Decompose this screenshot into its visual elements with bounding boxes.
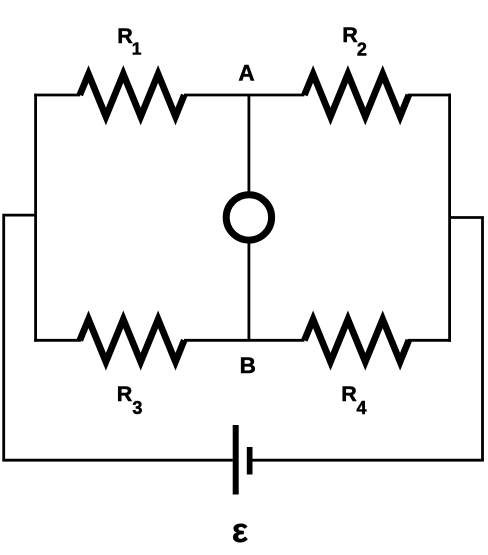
svg-text:1: 1 [132, 39, 142, 59]
svg-text:3: 3 [132, 398, 142, 418]
svg-text:R: R [341, 382, 357, 406]
svg-text:B: B [240, 353, 256, 378]
svg-text:R: R [117, 382, 133, 406]
svg-text:R: R [342, 23, 358, 47]
svg-text:R: R [117, 24, 133, 48]
svg-text:4: 4 [357, 398, 367, 418]
svg-text:A: A [238, 60, 254, 85]
svg-text:2: 2 [357, 40, 367, 60]
svg-text:ε: ε [232, 512, 248, 550]
